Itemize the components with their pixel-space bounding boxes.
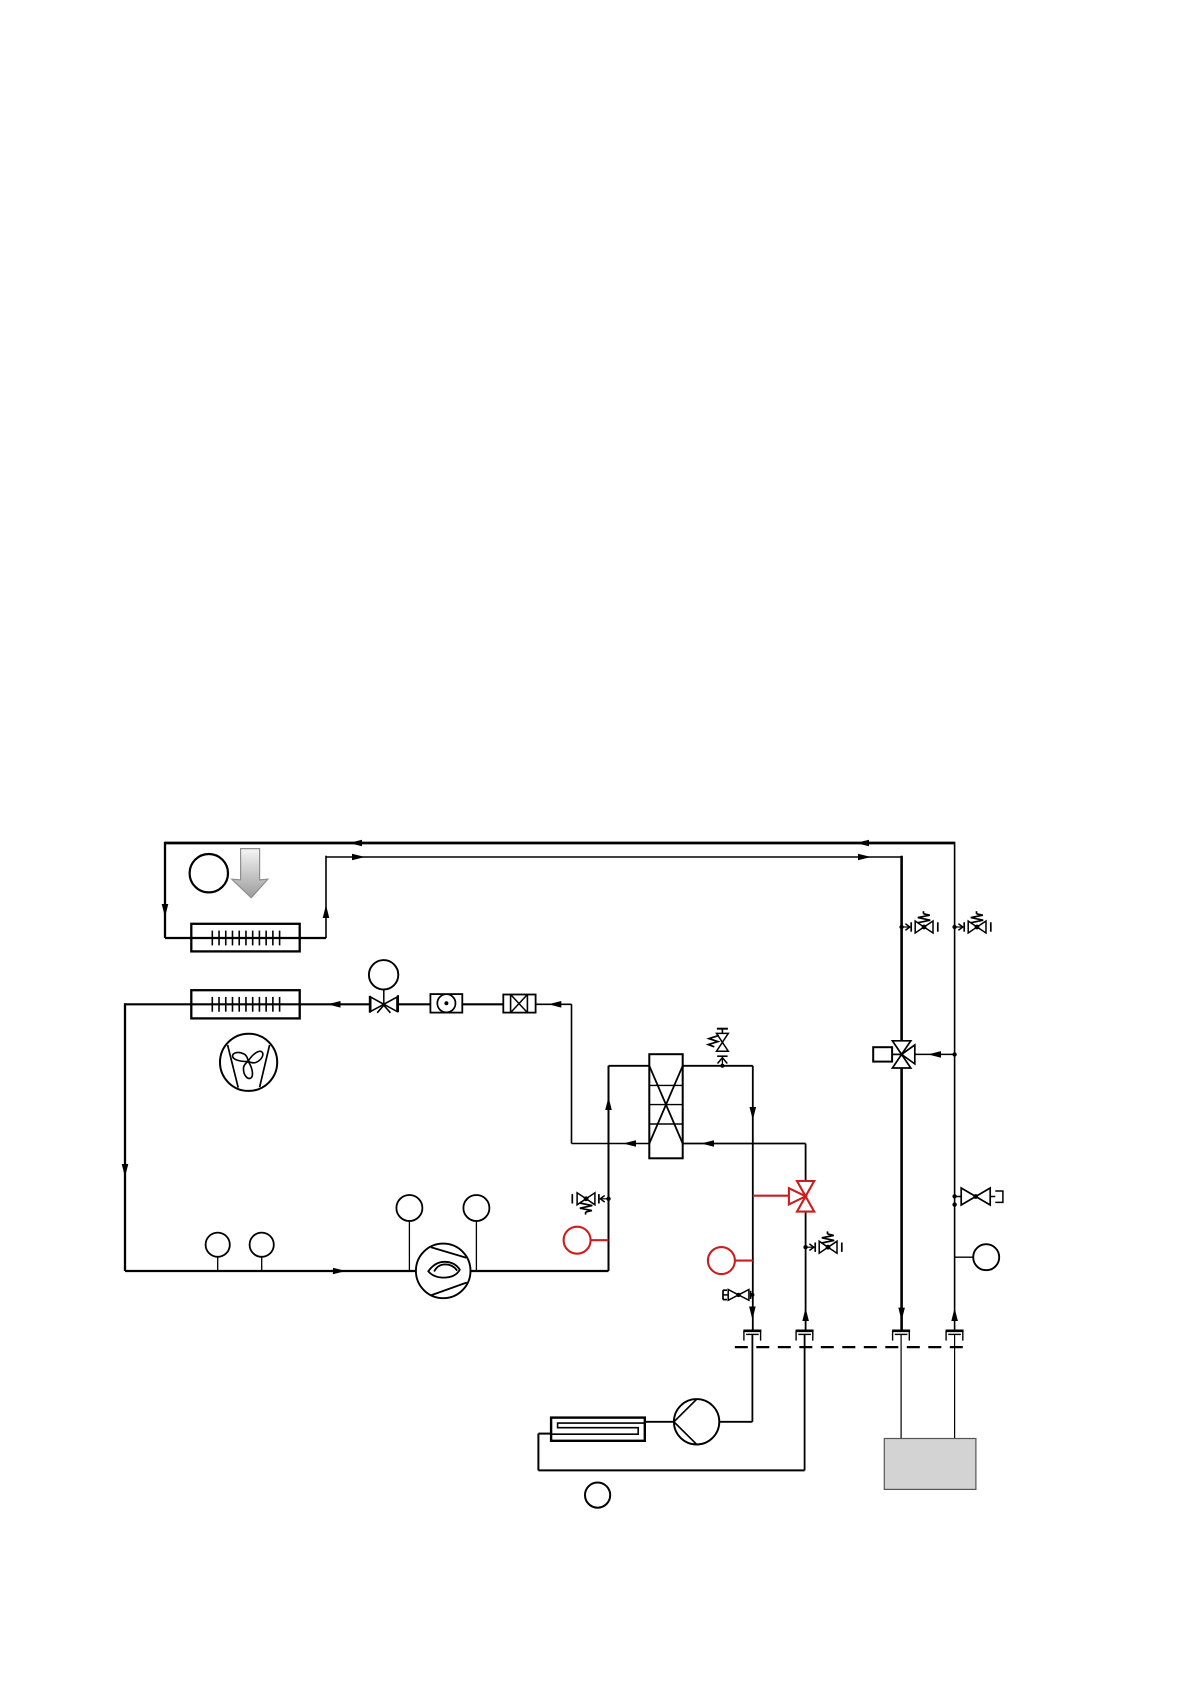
wire: PHX top-right pipe <box>683 1065 753 1067</box>
wire: water supply riser <box>805 1144 807 1331</box>
wire: PHX bottom-left pipe <box>572 1143 650 1145</box>
service valve top right 1 <box>899 911 937 933</box>
sensor circle bottom <box>585 1483 610 1508</box>
pump M3 <box>645 1399 720 1444</box>
wire: evaporator feed line a <box>125 1003 370 1005</box>
wire: compressor discharge riser <box>608 1066 610 1271</box>
gauge compressor 1 <box>396 1195 422 1271</box>
wire: flange1 to pump <box>720 1334 753 1421</box>
wire: right supply riser upper <box>900 856 903 1041</box>
service valve on discharge riser <box>572 1193 610 1215</box>
arrow: suction line right 2 <box>858 854 871 861</box>
wire: right return riser <box>954 842 956 1331</box>
wire: suction top line <box>326 856 902 858</box>
capped shut-off valve <box>952 1188 1003 1207</box>
flange connection 2 <box>796 1331 814 1341</box>
wire: PHX top-left pipe <box>609 1065 650 1067</box>
safety relief valve <box>708 1029 728 1068</box>
flange connection 1 <box>743 1331 761 1341</box>
gauge LP 2 <box>250 1233 274 1271</box>
wire: evaporator feed line d <box>536 1003 572 1005</box>
fan M1 <box>220 1034 277 1091</box>
sensor circle red right <box>708 1247 753 1274</box>
flange connection 3 <box>892 1331 910 1341</box>
arrow: evaporator drop down <box>122 1164 129 1177</box>
arrow: PHX bottom-left out <box>623 1140 636 1147</box>
gauge LP 1 <box>206 1233 230 1271</box>
arrow: discharge riser up <box>605 1097 612 1110</box>
3-way mixing valve (red) <box>789 1181 814 1212</box>
arrow: water return down <box>750 1107 757 1120</box>
arrow: suction line right 1 <box>352 854 365 861</box>
air-flow gray arrow <box>232 849 268 898</box>
arrow: top line left 1 <box>349 840 362 847</box>
wire: condenser coil inlet drop <box>164 842 166 938</box>
wire: water return drop <box>752 1066 754 1331</box>
arrow: into condenser coil down <box>162 904 169 917</box>
wire: PHX bottom-right pipe <box>683 1143 806 1145</box>
wire: evaporator feed line c <box>462 1003 503 1005</box>
wire: bottom return line <box>538 1469 804 1471</box>
service valve on supply riser right <box>803 1231 841 1253</box>
arrow: into evaporator left <box>328 1001 341 1008</box>
arrow: top line left 2 <box>856 840 869 847</box>
drain valve E <box>723 1290 754 1301</box>
sensor circle red left <box>564 1227 609 1254</box>
wire: evaporator outlet drop <box>124 1003 126 1271</box>
gauge compressor 2 <box>463 1195 489 1271</box>
customer load (gray box) <box>884 1439 976 1490</box>
arrow: liquid line left <box>548 1001 561 1008</box>
wire: condenser coil tube <box>165 937 326 939</box>
wire: red bypass line <box>753 1195 789 1197</box>
arrow: PHX bottom-right in <box>701 1140 714 1147</box>
pressure gauge right <box>955 1244 1000 1270</box>
wire: left up to heater <box>538 1434 551 1471</box>
arrow: suction to compressor right <box>333 1268 346 1275</box>
wire: flange3 to tank <box>900 1334 902 1438</box>
wire: liquid line riser <box>571 1004 573 1143</box>
wire: flange2 down <box>804 1334 806 1470</box>
scope boundary dashed line <box>735 1346 971 1348</box>
arrow: supply to customer down <box>898 1308 905 1321</box>
condenser coil (finned) <box>191 924 299 952</box>
wire: condenser coil outlet riser <box>325 856 327 938</box>
arrow: return from customer up <box>951 1308 958 1321</box>
arrow: out of condenser coil up <box>323 905 330 918</box>
flange connection 4 <box>946 1331 964 1341</box>
electric heater <box>551 1418 645 1441</box>
service valve top right 2 <box>952 911 990 933</box>
wire: compressor suction line b <box>471 1270 609 1272</box>
arrow: water return down 2 <box>749 1307 756 1320</box>
compressor M2 (scroll) <box>416 1244 471 1299</box>
expansion valve TEV <box>369 960 398 1013</box>
sensor circle B1 (outdoor) <box>190 854 228 892</box>
wire: right supply riser lower <box>900 1068 903 1330</box>
sight glass <box>430 994 462 1013</box>
wire: hot-gas top line <box>165 842 955 845</box>
wire: 4-way valve to return riser <box>915 1052 957 1056</box>
filter drier <box>503 995 535 1013</box>
wire: compressor suction line a <box>125 1270 416 1272</box>
evaporator coil (finned) <box>191 990 299 1018</box>
wire: evaporator feed line b <box>398 1003 430 1005</box>
plate heat exchanger <box>649 1054 682 1158</box>
arrow: water supply up 2 <box>802 1308 809 1321</box>
wire: flange4 to tank <box>954 1334 956 1438</box>
4-way reversing valve <box>873 1041 915 1068</box>
arrow: to 4-way valve left <box>928 1051 941 1058</box>
